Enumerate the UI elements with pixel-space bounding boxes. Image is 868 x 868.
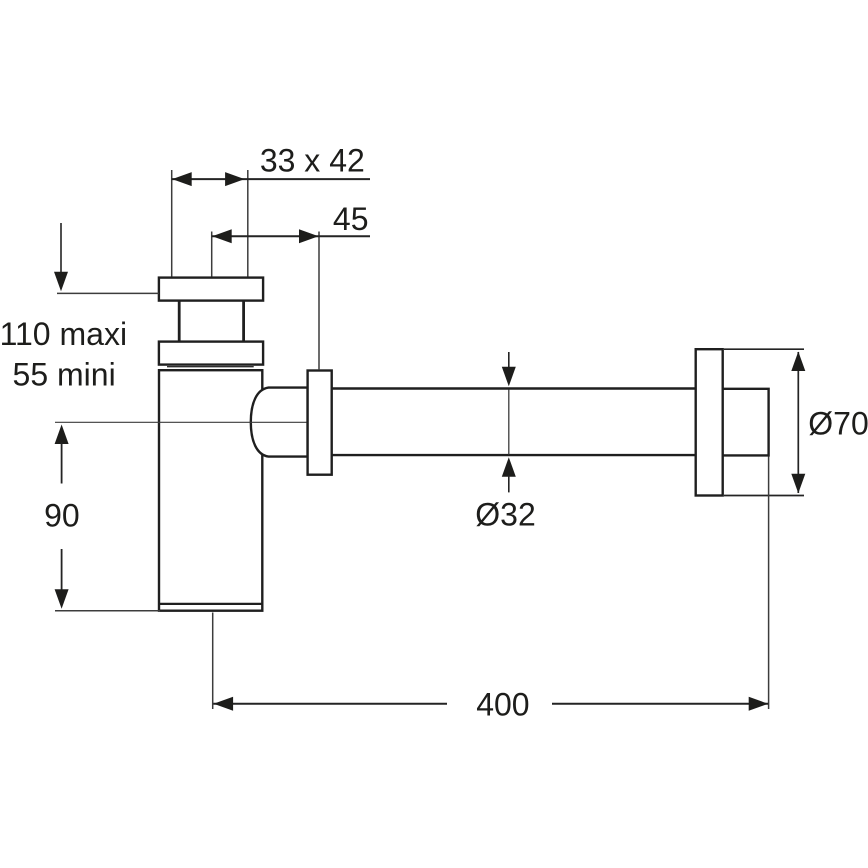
svg-text:45: 45 xyxy=(333,201,369,237)
svg-text:55 mini: 55 mini xyxy=(13,357,116,393)
svg-text:Ø70: Ø70 xyxy=(808,406,868,442)
svg-text:110 maxi: 110 maxi xyxy=(0,316,127,352)
svg-text:33 x 42: 33 x 42 xyxy=(260,143,365,179)
svg-text:400: 400 xyxy=(476,687,529,723)
svg-text:Ø32: Ø32 xyxy=(475,497,535,533)
svg-text:90: 90 xyxy=(44,498,80,534)
